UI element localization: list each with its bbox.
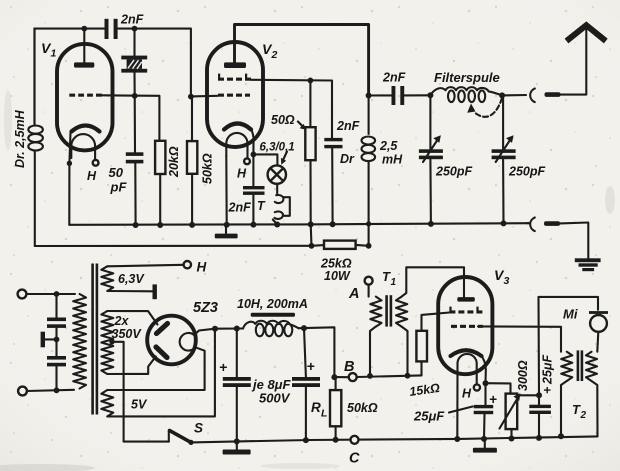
arrow to R3: [298, 122, 306, 130]
wire V2 grid entry: [191, 95, 218, 98]
switch S: [169, 431, 194, 446]
wire R6 bottom lead: [510, 429, 512, 438]
wire ground loop bottom: [35, 245, 312, 247]
wire T2 right bottom lead: [592, 381, 598, 436]
inductor L core bar: [251, 313, 295, 317]
svg-text:+: +: [219, 359, 227, 375]
inductor L 10H choke: [243, 321, 299, 337]
wire R5 bottom lead: [420, 361, 422, 375]
svg-text:A: A: [348, 286, 359, 302]
wire 5Z3 filament output: [194, 329, 215, 335]
label R1 20kOhm: [167, 146, 181, 178]
wire V1 grid lead to grid leak: [102, 95, 159, 141]
node C12 bottom dot: [303, 437, 309, 443]
transformer Tr core: [91, 264, 98, 415]
transformer T1 core: [385, 295, 392, 326]
wire V1 cathode down lead: [69, 133, 70, 225]
resistor R3 50ohm body: [305, 127, 315, 160]
wire C4 to bus: [331, 148, 333, 224]
node V1 cathode-heater dot: [67, 161, 72, 166]
label Mi: [563, 307, 578, 322]
svg-text:Filterspule: Filterspule: [434, 70, 500, 85]
wire HV center tap to switch: [112, 342, 169, 442]
label V1: [41, 40, 57, 60]
tube V3 heater loop: [458, 354, 477, 384]
label lamp 6,3/0,1: [260, 142, 295, 154]
wire mains upper: [26, 293, 75, 295]
tube V2 cathode arc: [224, 124, 251, 130]
label RL: [311, 400, 327, 420]
node C14 top dot: [536, 392, 542, 398]
tube V1 cathode arc: [72, 126, 100, 132]
svg-text:2nF: 2nF: [382, 71, 406, 85]
node V2 cathode dot: [251, 152, 257, 158]
label C11 plus: [219, 359, 227, 375]
node V3 heater bus dot: [454, 436, 460, 442]
inductor Filterspule coil: [430, 87, 502, 102]
svg-text:S: S: [194, 421, 203, 436]
capacitor C14 25uF: [529, 395, 551, 438]
resistor R2 50k body: [187, 141, 197, 174]
svg-text:50Ω: 50Ω: [271, 113, 295, 127]
node B+ filament dot: [212, 326, 218, 332]
label C8 250pF: [508, 165, 545, 179]
wire B+ node wire: [334, 375, 421, 377]
label node A: [348, 286, 359, 302]
connector antenna plug: [545, 92, 561, 97]
svg-text:+: +: [489, 392, 497, 407]
svg-text:1: 1: [51, 48, 57, 60]
wire top-left V1 anode rail: [35, 28, 105, 30]
svg-text:Mi: Mi: [563, 307, 578, 322]
wire 6,3V bottom to chassis: [107, 290, 152, 292]
capacitor C8 250pF variable: [492, 95, 516, 223]
wire R3 leads: [309, 80, 311, 224]
svg-text:20kΩ: 20kΩ: [167, 146, 181, 178]
label T1: [382, 269, 397, 288]
svg-text:H: H: [462, 387, 472, 401]
transformer T2 core: [577, 350, 584, 381]
label V2 heater H: [237, 167, 247, 181]
label R4 25kOhm 10W: [320, 257, 352, 284]
wire R2 leads: [191, 97, 193, 225]
terminal mains lower circle: [18, 387, 27, 396]
node mains filter top dot: [54, 291, 60, 297]
wire to earth: [560, 223, 588, 260]
label S: [194, 421, 203, 436]
label 5Z3: [193, 300, 218, 316]
tube V3 anode bar: [457, 297, 475, 302]
capacitor C2 50pF plates: [126, 152, 144, 163]
wire R4 right lead: [356, 244, 369, 247]
label C4 2nF: [336, 119, 360, 133]
node bus dot e: [250, 222, 256, 228]
tube V1 envelope: [57, 44, 113, 150]
transformer Tr primary winding: [73, 294, 86, 389]
wire V3 screen lead: [422, 313, 450, 331]
tube V3 control grid dashes: [451, 325, 483, 328]
wire T1 right bottom lead: [402, 327, 408, 376]
svg-text:2,5: 2,5: [379, 139, 398, 153]
wire grid-return to ground loop: [34, 150, 36, 246]
choke Dr2 2,5mH coil: [362, 96, 376, 246]
microphone Mi symbol: [589, 311, 608, 332]
wire bus to earth connector: [527, 222, 529, 224]
label C13 plus: [489, 392, 497, 407]
terminal C circle: [351, 436, 359, 444]
svg-text:10W: 10W: [324, 269, 351, 283]
wire RF ground bus: [69, 223, 529, 225]
node 50 ohm tap dot: [308, 78, 314, 84]
svg-text:Dr. 2,5mH: Dr. 2,5mH: [13, 109, 27, 168]
node A feed dot: [366, 243, 372, 249]
svg-text:5Z3: 5Z3: [193, 300, 218, 316]
wire HV top lead to plate1: [107, 311, 157, 325]
chassis ground bar on bus: [215, 225, 238, 239]
label node C: [349, 451, 360, 467]
wire mains lower: [27, 390, 74, 391]
transformer Tr HV winding 2x350V: [101, 311, 113, 374]
transformer T1 left winding: [370, 297, 381, 327]
node HV center tap dot: [109, 339, 114, 344]
node coil right dot: [499, 92, 505, 98]
label Dr2 Dr: [340, 152, 355, 166]
node ground-loop R4 dot: [309, 243, 315, 249]
terminal heater H circle psu: [184, 261, 191, 268]
tube 5Z3 envelope: [147, 316, 196, 365]
label je 8uF 500V: [251, 377, 292, 406]
node mains filter bottom dot: [54, 387, 60, 393]
resistor R1 20k body: [155, 141, 165, 174]
connector earth plug: [544, 221, 560, 226]
tube V2 envelope: [207, 42, 263, 147]
svg-text:2x: 2x: [114, 314, 130, 328]
label RL 50kOhm: [347, 401, 378, 415]
wire V2 cathode lead: [251, 128, 254, 154]
tube 5Z3 filament loop: [180, 333, 196, 351]
wire V3 heater-cathode to bus: [456, 372, 458, 439]
arrow to lamp: [281, 152, 287, 165]
node bus dot b: [157, 222, 163, 228]
node C8 bus dot: [501, 220, 507, 226]
capacitor C12 8uF: [292, 328, 320, 440]
svg-text:50kΩ: 50kΩ: [347, 401, 378, 415]
svg-text:3: 3: [504, 275, 510, 287]
capacitor C9 mains filter upper: [47, 294, 66, 339]
jack T frame: [283, 197, 290, 216]
svg-text:25μF: 25μF: [413, 409, 445, 424]
label V1 heater H: [87, 169, 97, 183]
choke Dr1 2,5mH coil: [28, 29, 43, 151]
wire choke to RL corner: [299, 327, 335, 377]
wire A to T1 primary: [368, 285, 370, 297]
svg-text:1: 1: [391, 277, 397, 288]
terminal V3 heater H circle: [474, 384, 480, 390]
svg-text:50kΩ: 50kΩ: [201, 153, 215, 184]
terminal V2 heater H circle: [244, 158, 250, 164]
wire crystal node to C2 50pF: [134, 96, 136, 153]
wire HV bottom lead to plate2: [107, 357, 156, 375]
wire cathode to lamp: [253, 154, 277, 165]
svg-text:2nF: 2nF: [228, 201, 252, 215]
antenna symbol: [567, 25, 606, 41]
wire V3 grid lead to T2: [478, 326, 561, 351]
label C5 2nF: [228, 201, 252, 215]
node crystal top junction dot: [132, 26, 138, 32]
capacitor C10 mains filter lower: [47, 339, 66, 390]
capacitor C11 8uF: [223, 329, 251, 442]
crystal Q body: [127, 59, 142, 68]
resistor R4 25k bleeder body: [324, 241, 356, 249]
svg-text:10H, 200mA: 10H, 200mA: [237, 297, 308, 311]
wire T2 left bottom lead: [561, 381, 567, 436]
crystal Q quartz plates: [121, 56, 147, 73]
svg-text:2nF: 2nF: [120, 13, 144, 27]
wire feed to C6: [369, 94, 392, 96]
node V2 grid junction dot: [188, 94, 194, 100]
node bus dot g: [308, 221, 314, 227]
label C2 50pF: [109, 165, 128, 195]
label L 10H 200mA: [237, 297, 308, 311]
transformer Tr 6,3V winding: [101, 266, 113, 291]
label node B: [344, 359, 354, 375]
wire 5V bottom lead: [107, 329, 215, 417]
wire R6 top to C14: [517, 394, 539, 396]
label R5 15kOhm: [408, 381, 441, 399]
chassis bar 6,3V: [153, 284, 157, 299]
node V1 grid junction dot: [132, 93, 138, 99]
terminal mains upper circle: [18, 290, 27, 299]
wire T1 right top lead to V3 anode: [402, 267, 464, 297]
connector earth socket: [530, 218, 535, 232]
wire R1 bottom to bus: [159, 174, 161, 225]
transformer T2 right winding: [586, 352, 597, 381]
transformer Tr 5V winding: [101, 390, 113, 416]
wire 2nF C1 to V2 grid riser: [118, 29, 191, 97]
node C13 bottom dot: [481, 436, 487, 442]
earth ground symbol: [575, 258, 601, 271]
node bus dot d: [224, 222, 230, 228]
wire C6 to coil: [404, 94, 430, 96]
node bus dot c: [189, 222, 195, 228]
label C7 250pF: [435, 165, 472, 179]
svg-text:350V: 350V: [112, 327, 143, 341]
wire V3 cathode lead: [481, 355, 486, 384]
tube 5Z3 plate 2: [156, 347, 167, 358]
wire V1 anode lead: [83, 29, 85, 63]
label 2x 350V: [112, 314, 143, 341]
svg-text:Dr: Dr: [340, 152, 355, 166]
wire T1 left bottom lead: [370, 327, 376, 376]
node coil left dot: [427, 92, 433, 98]
chassis stub mains filter: [41, 332, 57, 348]
capacitor C4 2nF plates: [324, 138, 342, 148]
label C6 2nF: [382, 71, 406, 85]
svg-text:2: 2: [580, 410, 587, 421]
svg-text:500V: 500V: [259, 391, 291, 406]
node C7 bus dot: [428, 221, 434, 227]
svg-text:5V: 5V: [131, 398, 148, 412]
wire RL leads: [335, 377, 337, 440]
node C11 top dot: [234, 326, 240, 332]
tube V3 cathode arc: [451, 350, 482, 356]
wire R4 left lead: [312, 244, 325, 247]
svg-text:+: +: [541, 386, 555, 394]
node R6 bottom dot: [509, 436, 515, 442]
label V3 heater H: [462, 387, 472, 401]
terminal B circle: [349, 373, 357, 381]
wire mic to T2: [597, 332, 598, 352]
label 6,3V: [118, 272, 145, 286]
label Dr2 2,5 mH: [379, 139, 403, 167]
label V3: [494, 267, 510, 287]
label R3 50ohm: [271, 113, 295, 127]
svg-text:R: R: [311, 400, 321, 415]
svg-text:250pF: 250pF: [435, 165, 472, 179]
wire left grid-return drop: [33, 29, 35, 125]
node C14 bottom dot: [536, 435, 542, 441]
wire B+ to choke: [215, 327, 243, 329]
label Dr1 Dr. 2,5mH: [13, 109, 27, 168]
terminal A circle: [365, 277, 373, 285]
label R2 50kOhm: [201, 153, 215, 184]
label jack T: [257, 199, 266, 213]
node bus dot f: [274, 222, 280, 228]
wire cathode to R6: [486, 383, 511, 393]
tube V3 envelope: [438, 277, 492, 374]
wire 6,3V top to H terminal: [107, 265, 183, 267]
tube V3 screen grid dashes: [449, 307, 482, 314]
label T2: [572, 402, 587, 421]
tube V1 heater loop: [71, 134, 95, 159]
transformer T1 right winding: [396, 297, 407, 327]
svg-text:6,3V: 6,3V: [118, 272, 145, 286]
node bus dot a: [133, 222, 139, 228]
capacitor C1 2nF plates: [105, 19, 118, 39]
wire C2 to ground bus: [134, 163, 136, 225]
capacitor C7 250pF variable: [419, 95, 443, 224]
wire lamp to jack: [276, 184, 278, 194]
label Filterspule: [434, 70, 500, 85]
transformer T2 left winding: [561, 352, 572, 381]
jack T lower contact: [273, 211, 283, 224]
node choke out dot: [301, 325, 307, 331]
label V2: [262, 41, 278, 61]
node RL top dot: [331, 374, 337, 380]
tube V1 grid dashes: [69, 94, 102, 97]
coil tap arrow: [467, 98, 502, 117]
svg-text:mH: mH: [382, 153, 403, 167]
node T2 left bottom dot: [558, 433, 564, 439]
svg-text:pF: pF: [110, 180, 128, 195]
chassis ground bar psu: [223, 441, 251, 454]
svg-text:300Ω: 300Ω: [516, 360, 530, 391]
wire C5 leads: [252, 154, 254, 224]
node T1 left bottom dot: [367, 373, 373, 379]
terminal V1 heater H circle: [93, 160, 99, 166]
capacitor C13 25uF: [474, 383, 494, 439]
svg-text:+: +: [307, 358, 315, 374]
svg-text:2: 2: [271, 49, 278, 61]
wire to antenna: [561, 29, 587, 95]
svg-text:L: L: [321, 408, 327, 420]
resistor RL 50k body: [330, 390, 341, 426]
chassis ground bar v3: [473, 439, 497, 453]
label 5V: [131, 398, 148, 412]
tube 5Z3 plate 1: [157, 324, 168, 334]
node bus dot h: [330, 221, 336, 227]
wire 5V top lead: [107, 347, 204, 390]
node T1 right bottom dot: [405, 373, 411, 379]
wire mic feed: [539, 297, 599, 395]
capacitor C5 2nF cathode plates: [243, 186, 265, 195]
node V3 cathode dot: [483, 380, 489, 386]
tube V2 screen grid dashes: [218, 74, 251, 81]
node V2 anode feed dot: [366, 93, 372, 99]
wire V2 heater-cathode to bus: [225, 156, 227, 225]
label C1 2nF: [120, 13, 144, 27]
lamp La 6,3/0,1 bulb: [268, 165, 286, 183]
wire riser bus to ground loop: [310, 224, 313, 245]
node mains filter mid dot: [54, 337, 60, 343]
svg-text:2nF: 2nF: [336, 119, 360, 133]
label C13 25uF: [413, 407, 473, 424]
tube V2 control grid dashes: [218, 94, 250, 97]
svg-text:H: H: [87, 169, 97, 183]
wire V2 screen lead: [251, 80, 332, 138]
label C14 +25uF: [541, 355, 555, 394]
capacitor C6 2nF plates: [392, 86, 405, 105]
jack T upper contact: [275, 195, 284, 203]
label R6 300ohm: [516, 360, 530, 391]
svg-text:25μF: 25μF: [541, 355, 555, 385]
svg-text:C: C: [349, 451, 360, 467]
svg-text:B: B: [344, 359, 354, 375]
svg-text:50: 50: [109, 165, 124, 180]
wire coil to antenna connector: [502, 94, 526, 97]
wire bottom bus: [191, 436, 598, 442]
svg-text:250pF: 250pF: [508, 165, 545, 179]
resistor R6 300ohm body: [506, 394, 518, 430]
wire V2 anode lead and feed run: [235, 25, 369, 96]
tube V2 heater loop: [226, 133, 247, 158]
tube V1 anode bar: [74, 62, 94, 67]
svg-text:H: H: [197, 260, 207, 275]
label H psu: [197, 260, 207, 275]
svg-text:H: H: [237, 167, 247, 181]
resistor R5 15k body: [416, 331, 427, 362]
node V1 anode junction dot: [81, 26, 87, 32]
node bus crossing blob: [366, 221, 371, 226]
svg-text:6,3/0,1: 6,3/0,1: [260, 142, 295, 154]
connector antenna socket: [530, 89, 535, 103]
node C11 bottom dot: [234, 438, 240, 444]
wire crystal leads: [133, 29, 135, 96]
resistor R6 arrow: [500, 393, 521, 428]
label C12 plus: [307, 358, 315, 374]
node RL bottom dot: [333, 437, 339, 443]
tube V2 anode bar: [224, 62, 246, 68]
